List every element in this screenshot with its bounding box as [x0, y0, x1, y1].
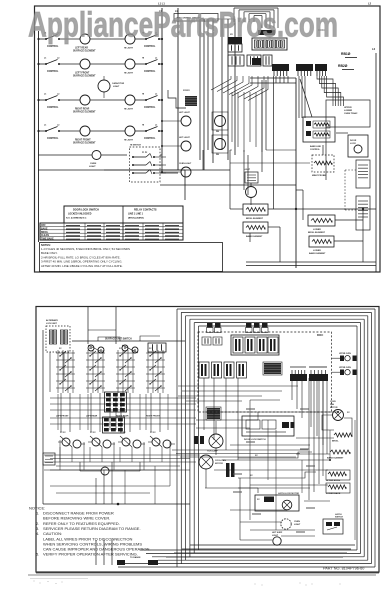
- svg-text:BAKE ELEMENT: BAKE ELEMENT: [246, 235, 263, 238]
- svg-text:DOOR: DOOR: [350, 140, 357, 142]
- svg-text:HI LIGHT: HI LIGHT: [124, 140, 134, 142]
- svg-text:HI LIGHT: HI LIGHT: [124, 109, 134, 111]
- svg-text:BAKE ELEMENT: BAKE ELEMENT: [327, 457, 344, 460]
- svg-text:UPPER OVEN: UPPER OVEN: [339, 367, 351, 369]
- svg-text:LIGHT: LIGHT: [113, 86, 120, 88]
- svg-text:CONTROL: CONTROL: [47, 46, 59, 48]
- svg-text:LOWER BAKE: LOWER BAKE: [326, 492, 341, 495]
- svg-text:XX XX: XX XX: [60, 432, 66, 434]
- svg-text:BAKE ELEMENT: BAKE ELEMENT: [309, 252, 326, 255]
- svg-text:OVEN: OVEN: [90, 163, 97, 165]
- svg-text:CONTROL: CONTROL: [47, 71, 59, 73]
- svg-text:AFTER 40 MIN. LINE 1/BAKE CYCL: AFTER 40 MIN. LINE 1/BAKE CYCLING ONLY A…: [41, 264, 123, 268]
- svg-text:RIGHT REAR: RIGHT REAR: [75, 108, 90, 111]
- svg-text:PART NO. 8104P796-60: PART NO. 8104P796-60: [323, 567, 364, 571]
- svg-text:COOL FAN: COOL FAN: [215, 459, 226, 462]
- svg-text:LIGHT: LIGHT: [89, 166, 96, 168]
- svg-text:BROIL: BROIL: [332, 441, 339, 443]
- svg-text:UPPER OVEN: UPPER OVEN: [339, 353, 351, 355]
- svg-text:L2: L2: [372, 47, 376, 51]
- svg-text:DOOR LOCK SWITCH: DOOR LOCK SWITCH: [244, 439, 266, 441]
- svg-text:LINE 1 LINE 1: LINE 1 LINE 1: [128, 214, 144, 216]
- svg-text:MOTOR: MOTOR: [330, 407, 338, 409]
- svg-text:CONTROL: CONTROL: [144, 46, 156, 48]
- svg-text:CONTROL: CONTROL: [144, 107, 156, 109]
- svg-text:LOCK: LOCK: [350, 143, 356, 145]
- svg-text:HOT LIGHT: HOT LIGHT: [179, 112, 191, 114]
- svg-text:CONTROL: CONTROL: [144, 71, 156, 73]
- svg-text:TIME BAKE: TIME BAKE: [41, 238, 54, 241]
- svg-text:LOCKED UNLOCKED: LOCKED UNLOCKED: [68, 214, 92, 216]
- svg-text:5.: 5.: [36, 552, 39, 557]
- svg-text:SURFACE ELEMENT: SURFACE ELEMENT: [73, 142, 96, 145]
- svg-text:LOWER: LOWER: [313, 250, 321, 252]
- svg-text:CONTROL: CONTROL: [144, 138, 156, 140]
- svg-text:XX XX: XX XX: [150, 432, 156, 434]
- svg-text:SWITCH: SWITCH: [335, 517, 343, 519]
- svg-text:N.O. (COMMON) N.O.: N.O. (COMMON) N.O.: [66, 218, 87, 220]
- svg-text:OVEN: OVEN: [294, 521, 300, 523]
- svg-text:SURFACE ELEMENT: SURFACE ELEMENT: [73, 75, 96, 78]
- svg-text:MEAT PROBE: MEAT PROBE: [312, 174, 326, 177]
- svg-text:(BROIL) (BAKE): (BROIL) (BAKE): [128, 217, 144, 220]
- svg-text:VERIFY PROPER OPERATION AFTER: VERIFY PROPER OPERATION AFTER SERVICING.: [43, 552, 138, 557]
- svg-text:BROIL ELEMENT: BROIL ELEMENT: [308, 232, 326, 234]
- svg-text:RIGHT FRONT: RIGHT FRONT: [146, 416, 160, 418]
- svg-text:XXXXX: XXXXX: [183, 90, 190, 92]
- svg-text:ALTERNATE: ALTERNATE: [46, 319, 58, 322]
- svg-text:OVEN LIGHT: OVEN LIGHT: [179, 163, 192, 165]
- svg-text:DOC: DOC: [317, 333, 323, 337]
- svg-text:4.: 4.: [36, 531, 39, 536]
- svg-text:CONV: CONV: [330, 401, 336, 403]
- svg-text:DOOR LOCK SWITCH: DOOR LOCK SWITCH: [73, 209, 99, 212]
- svg-text:P1 P2: P1 P2: [142, 152, 147, 154]
- svg-text:LIGHT: LIGHT: [294, 524, 301, 526]
- svg-text:LATCH LOCK MOTOR: LATCH LOCK MOTOR: [278, 492, 299, 495]
- svg-text:HOT SURF: HOT SURF: [272, 532, 283, 534]
- svg-text:OFF: OFF: [41, 225, 46, 227]
- svg-text:1.: 1.: [36, 511, 39, 516]
- svg-text:HOT LIGHT: HOT LIGHT: [179, 137, 191, 139]
- svg-text:LEFT REAR: LEFT REAR: [75, 47, 88, 50]
- svg-text:SURFACE ELEMENT: SURFACE ELEMENT: [73, 111, 96, 114]
- svg-text:CONTROL: CONTROL: [310, 149, 321, 151]
- svg-text:LOWER: LOWER: [313, 229, 321, 231]
- svg-text:RB2Ø: RB2Ø: [338, 64, 348, 68]
- svg-text:CONTROL: CONTROL: [47, 107, 59, 109]
- svg-text:OVEN TRIAC: OVEN TRIAC: [344, 112, 358, 115]
- svg-text:LOWER: LOWER: [344, 110, 353, 112]
- svg-text:AppliancePartsPros.com: AppliancePartsPros.com: [28, 5, 338, 45]
- svg-text:XX XX: XX XX: [120, 432, 126, 434]
- svg-text:RIGHT FRONT: RIGHT FRONT: [75, 140, 91, 142]
- svg-text:LIGHT: LIGHT: [244, 169, 251, 171]
- svg-text:UPPER: UPPER: [344, 107, 352, 109]
- svg-text:RELAY CONTACTS: RELAY CONTACTS: [134, 209, 157, 212]
- svg-text:LEFT REAR: LEFT REAR: [86, 415, 98, 418]
- svg-text:LEFT FRONT: LEFT FRONT: [56, 416, 69, 418]
- svg-text:BROIL: BROIL: [41, 232, 49, 234]
- svg-text:XX XX: XX XX: [90, 432, 96, 434]
- svg-text:CONTROL: CONTROL: [47, 138, 59, 140]
- svg-text:HI LIGHT: HI LIGHT: [124, 48, 134, 50]
- svg-text:BROIL ELEMENT: BROIL ELEMENT: [246, 218, 264, 220]
- svg-text:SURFACE ELEMENT: SURFACE ELEMENT: [73, 50, 96, 53]
- svg-text:LEFT FRONT: LEFT FRONT: [75, 73, 90, 75]
- svg-text:SURFACE UNIT SWITCH: SURFACE UNIT SWITCH: [105, 338, 132, 341]
- svg-text:MOTOR: MOTOR: [215, 463, 223, 465]
- svg-text:LOCK UNIT: LOCK UNIT: [46, 323, 58, 325]
- svg-text:CAPACITOR: CAPACITOR: [112, 82, 125, 85]
- svg-text:HI LIGHT: HI LIGHT: [124, 73, 134, 75]
- svg-text:HI SWITCH: HI SWITCH: [130, 145, 141, 147]
- svg-text:BAKE LINE: BAKE LINE: [310, 145, 321, 148]
- svg-text:RB1Ø: RB1Ø: [341, 52, 351, 56]
- svg-text:FAN: FAN: [330, 403, 335, 406]
